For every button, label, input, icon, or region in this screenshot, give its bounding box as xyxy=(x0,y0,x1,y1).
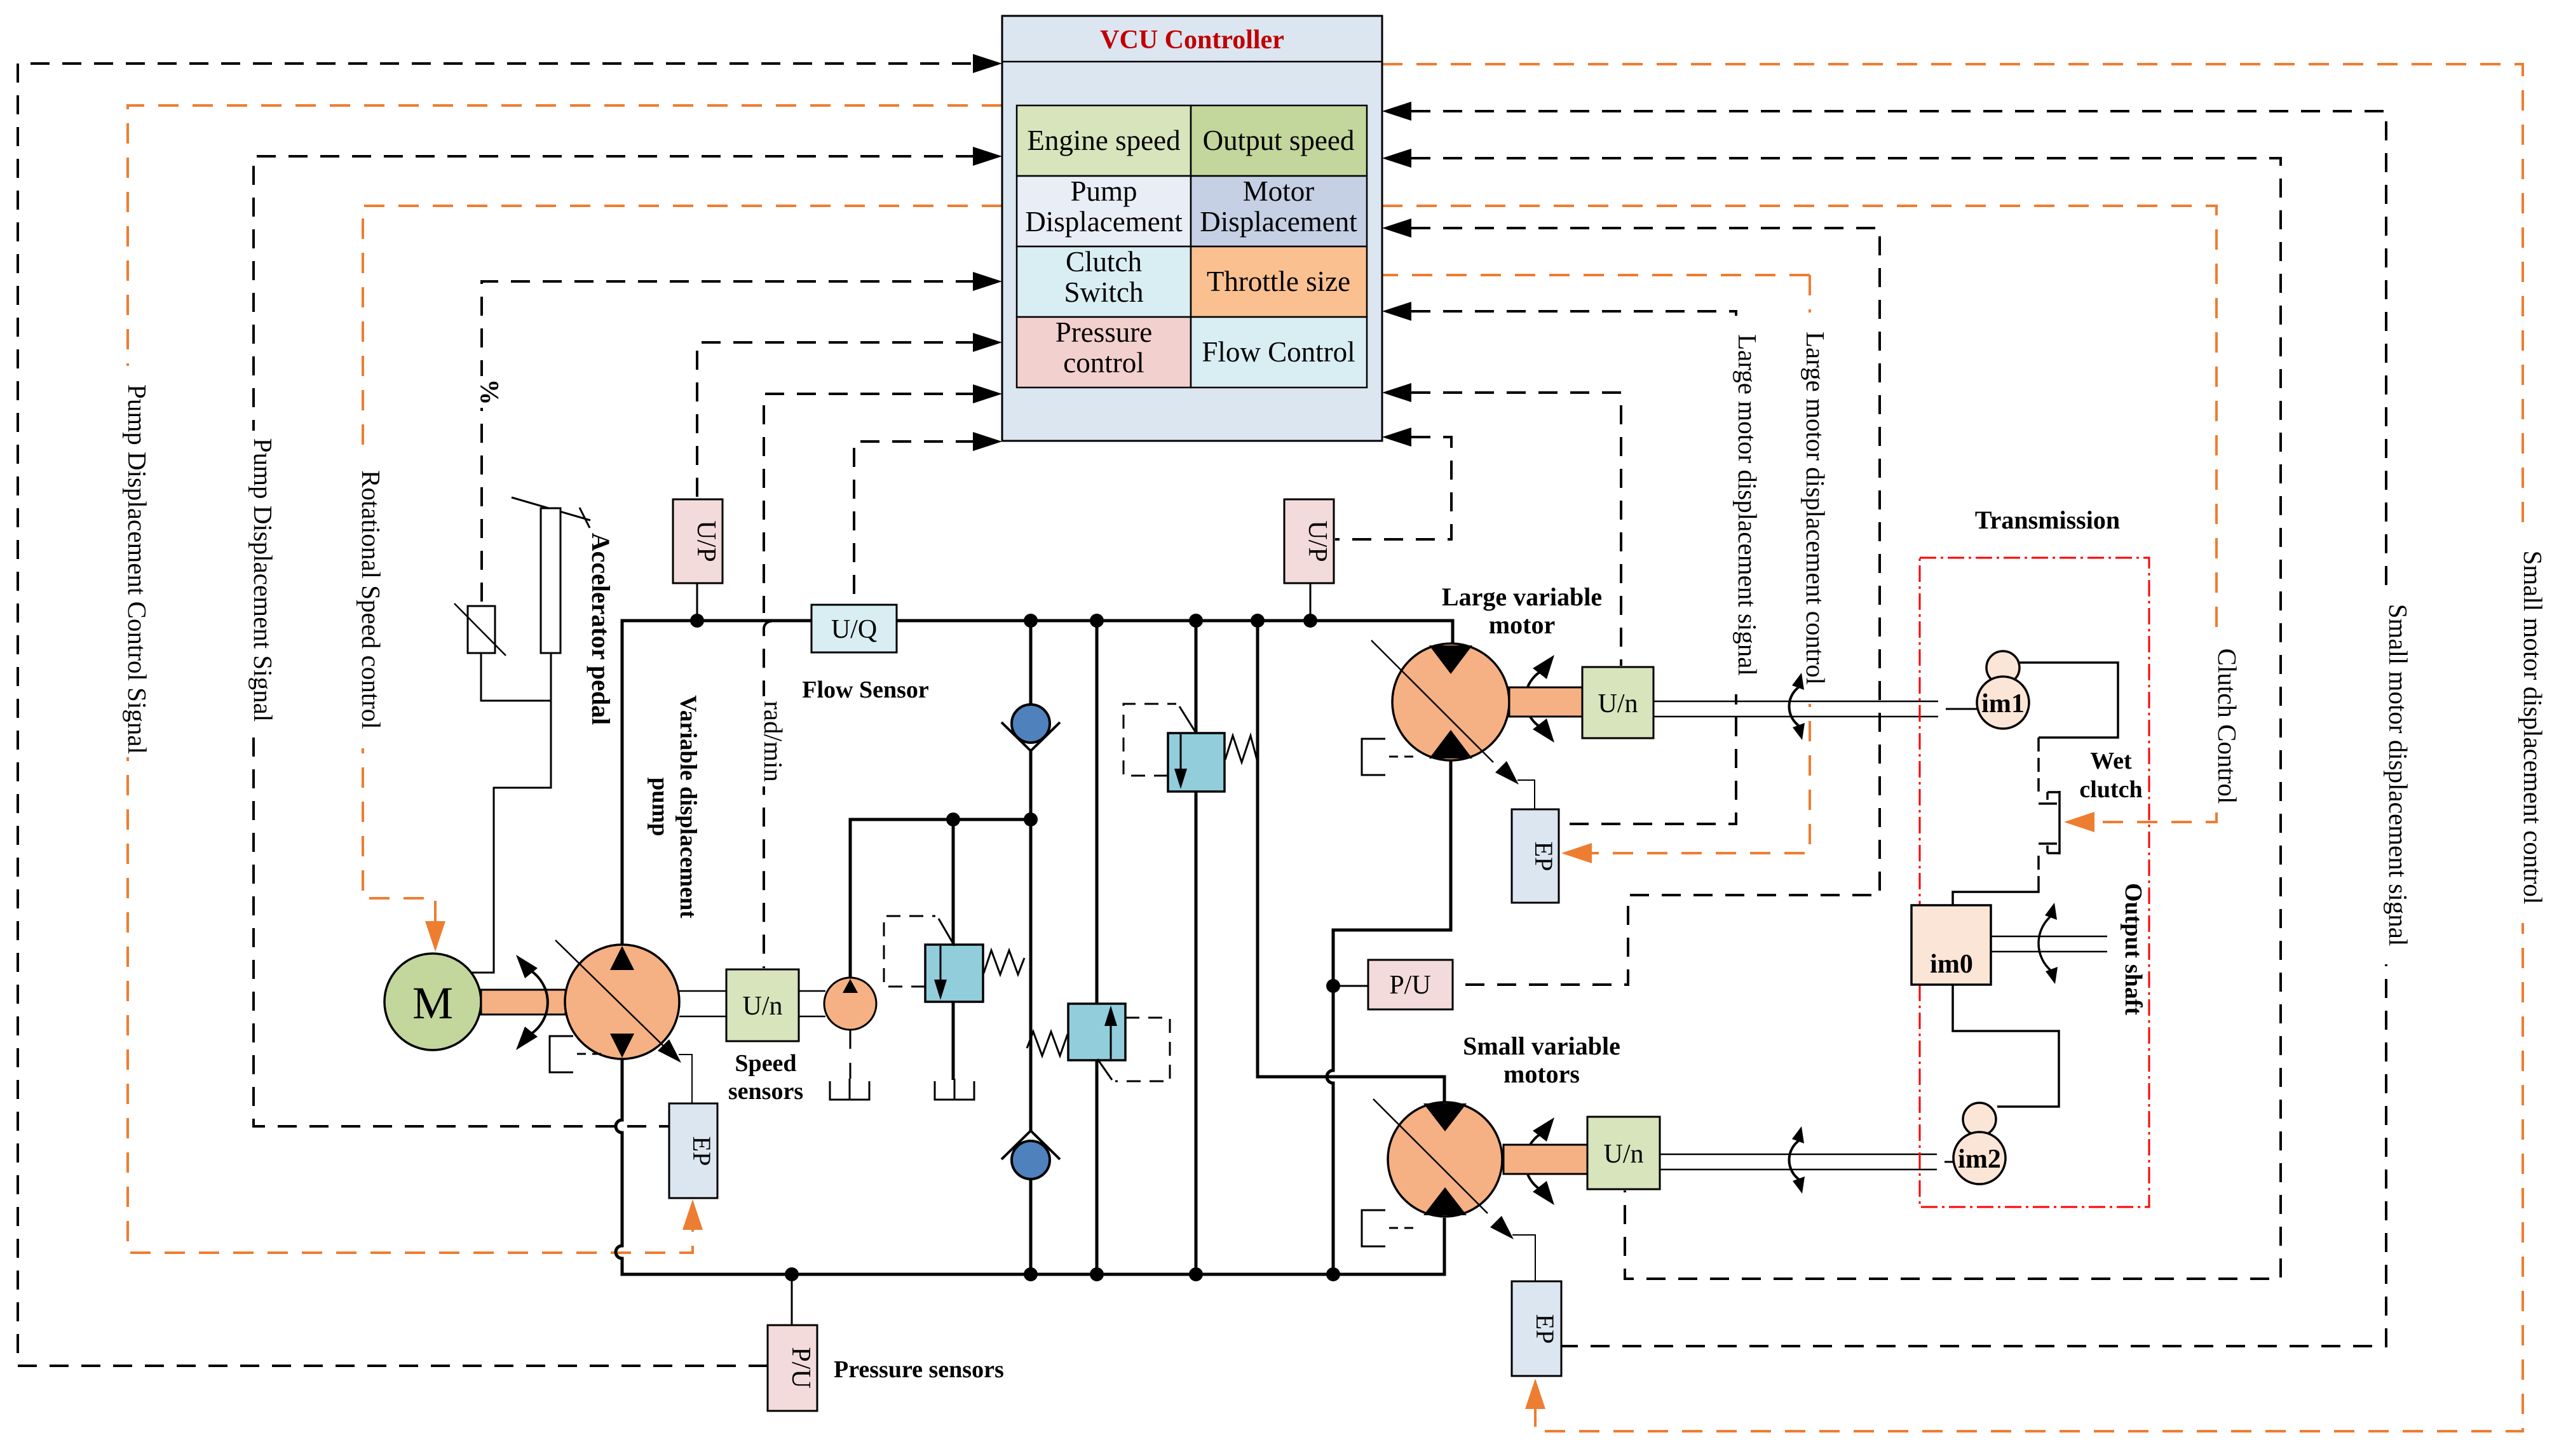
svg-text:Large variable: Large variable xyxy=(1442,583,1602,611)
svg-text:im0: im0 xyxy=(1930,950,1973,979)
svg-text:Displacement: Displacement xyxy=(1025,206,1183,238)
svg-text:%: % xyxy=(475,379,505,405)
svg-text:Pressure: Pressure xyxy=(1055,316,1152,348)
svg-text:im1: im1 xyxy=(1981,689,2025,718)
svg-text:M: M xyxy=(412,978,453,1028)
svg-text:EP: EP xyxy=(1530,842,1558,872)
svg-text:Pressure sensors: Pressure sensors xyxy=(834,1356,1004,1383)
svg-text:Switch: Switch xyxy=(1064,276,1143,308)
svg-text:P/U: P/U xyxy=(786,1347,815,1388)
svg-text:Accelerator pedal: Accelerator pedal xyxy=(587,533,615,725)
svg-text:pump: pump xyxy=(647,778,673,837)
svg-text:motors: motors xyxy=(1503,1060,1580,1088)
svg-text:U/n: U/n xyxy=(743,992,783,1021)
svg-text:Flow Sensor: Flow Sensor xyxy=(802,677,929,703)
svg-text:im2: im2 xyxy=(1958,1145,2001,1174)
svg-text:Variable displacement: Variable displacement xyxy=(675,695,701,919)
svg-text:Speed: Speed xyxy=(735,1050,796,1077)
svg-text:Flow Control: Flow Control xyxy=(1202,336,1355,368)
svg-text:Large motor displacement contr: Large motor displacement control xyxy=(1801,332,1830,685)
svg-text:P/U: P/U xyxy=(1389,971,1430,1000)
svg-text:Pump: Pump xyxy=(1070,175,1137,207)
svg-text:U/P: U/P xyxy=(691,520,721,562)
svg-text:EP: EP xyxy=(688,1136,716,1166)
svg-text:Small motor displacement signa: Small motor displacement signal xyxy=(2384,604,2413,947)
svg-text:Output shaft: Output shaft xyxy=(2120,883,2147,1015)
svg-text:Output speed: Output speed xyxy=(1203,125,1355,156)
svg-text:Transmission: Transmission xyxy=(1975,506,2120,534)
svg-text:sensors: sensors xyxy=(728,1078,803,1105)
svg-text:Displacement: Displacement xyxy=(1200,206,1357,238)
svg-text:Small motor displacement contr: Small motor displacement control xyxy=(2518,551,2548,905)
svg-text:clutch: clutch xyxy=(2079,776,2142,803)
svg-text:Small variable: Small variable xyxy=(1463,1032,1620,1060)
svg-text:Clutch Control: Clutch Control xyxy=(2213,649,2242,804)
svg-text:Pump Displacement Signal: Pump Displacement Signal xyxy=(248,438,278,722)
svg-text:Rotational Speed control: Rotational Speed control xyxy=(356,470,386,729)
svg-text:U/Q: U/Q xyxy=(831,615,877,644)
svg-text:Throttle size: Throttle size xyxy=(1207,266,1350,297)
svg-text:control: control xyxy=(1063,347,1144,379)
svg-text:Motor: Motor xyxy=(1243,175,1315,207)
svg-text:Engine speed: Engine speed xyxy=(1027,125,1180,156)
svg-text:Pump Displacement Control Sign: Pump Displacement Control Signal xyxy=(123,384,152,754)
svg-text:U/n: U/n xyxy=(1598,689,1638,718)
svg-text:VCU Controller: VCU Controller xyxy=(1100,25,1284,55)
svg-text:rad/min: rad/min xyxy=(759,701,788,782)
svg-text:U/P: U/P xyxy=(1303,520,1332,562)
svg-text:Clutch: Clutch xyxy=(1066,246,1142,278)
svg-text:EP: EP xyxy=(1531,1314,1559,1344)
svg-text:U/n: U/n xyxy=(1604,1140,1644,1169)
svg-text:motor: motor xyxy=(1489,610,1555,639)
svg-text:Wet: Wet xyxy=(2090,748,2132,774)
svg-text:Large motor displacement signa: Large motor displacement signal xyxy=(1733,334,1762,676)
